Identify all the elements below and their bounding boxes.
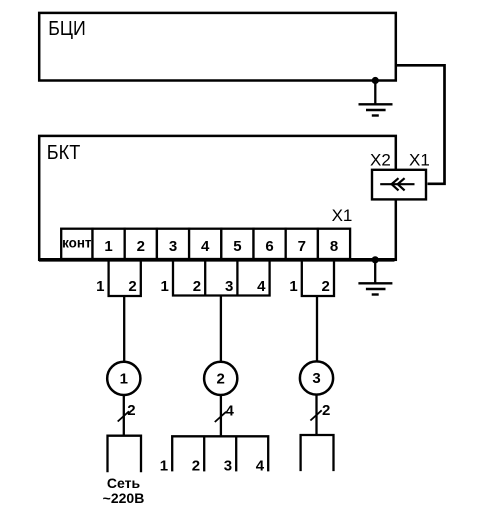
- bottom edge of БКТ (doubled line): [39, 258, 395, 262]
- terminal strip X1: contact 6: [254, 229, 286, 259]
- load connector (Сеть ~220В): [108, 436, 142, 473]
- svg-text:2: 2: [128, 278, 136, 295]
- connector symbol (arrows): [380, 178, 414, 190]
- svg-text:Сеть: Сеть: [107, 475, 141, 491]
- svg-text:2: 2: [127, 402, 135, 419]
- svg-text:X1: X1: [332, 206, 353, 225]
- svg-text:1: 1: [289, 278, 297, 295]
- wire bundle from contacts 1,2: [109, 260, 141, 296]
- wire label 2 (bundle C): [322, 278, 330, 295]
- load wire label 1: [160, 458, 168, 475]
- wire bundle B down to cable 2: [220, 296, 222, 362]
- wire cable 1 down to load: [123, 396, 125, 436]
- terminal strip X1: contact 1: [93, 229, 125, 259]
- cable circle 3: [300, 361, 333, 394]
- terminal strip X1: contact 5: [221, 229, 253, 259]
- terminal strip X1: contact 2: [125, 229, 157, 259]
- cable circle 1: [107, 362, 140, 395]
- svg-text:3: 3: [169, 238, 177, 255]
- ground symbol under БКТ: [358, 260, 392, 295]
- load connector (2-wire right): [301, 435, 334, 471]
- conductor-count label 4 (cable 2): [226, 403, 235, 420]
- cable circle 2: [204, 362, 237, 395]
- label Сеть ~220В: [103, 475, 145, 506]
- conductor-count label 2 (cable 1): [127, 402, 135, 419]
- svg-text:2: 2: [137, 238, 145, 255]
- junction dot on БКТ bottom: [372, 256, 379, 263]
- wire label 2 (bundle B): [193, 278, 201, 295]
- svg-text:5: 5: [233, 238, 241, 255]
- svg-text:7: 7: [298, 238, 306, 255]
- svg-text:4: 4: [256, 458, 265, 475]
- svg-text:БЦИ: БЦИ: [48, 18, 86, 40]
- connector X2/X1 box: [372, 170, 426, 200]
- conductor-count slash (cable 1): [118, 411, 129, 421]
- svg-text:БКТ: БКТ: [47, 141, 81, 164]
- terminal strip X1: contact 7: [286, 229, 318, 259]
- svg-text:2: 2: [193, 278, 201, 295]
- svg-text:3: 3: [224, 458, 232, 475]
- wire bundle from contacts 7,8: [302, 260, 334, 296]
- svg-text:1: 1: [96, 278, 104, 295]
- label X1 (connector socket side): [409, 150, 430, 169]
- svg-text:2: 2: [192, 458, 200, 475]
- svg-text:4: 4: [201, 238, 210, 255]
- wire bundle from contacts 3,4,5,6: [173, 260, 270, 296]
- svg-text:~220В: ~220В: [103, 490, 145, 506]
- svg-text:X2: X2: [370, 150, 391, 169]
- conductor-count label 2 (cable 3): [322, 402, 330, 419]
- terminal strip X1: конт cell: [61, 229, 92, 259]
- svg-text:8: 8: [330, 238, 338, 255]
- label X2 (connector plug side): [370, 150, 391, 169]
- svg-text:1: 1: [161, 278, 169, 295]
- wire label 4 (bundle B): [257, 278, 266, 295]
- load connector (4-wire): [172, 436, 268, 471]
- terminal strip X1: contact 8: [318, 229, 350, 259]
- wire cable 3 down to load: [315, 395, 317, 435]
- wire label 1 (bundle B): [161, 278, 169, 295]
- wire label 1 (bundle C): [289, 278, 297, 295]
- block БЦИ: [39, 13, 396, 81]
- svg-text:2: 2: [322, 278, 330, 295]
- wire cable 2 down to load: [220, 396, 222, 436]
- conductor-count slash (cable 3): [310, 410, 321, 420]
- wire label 2 (bundle A): [128, 278, 136, 295]
- svg-text:конт: конт: [62, 236, 92, 251]
- svg-text:1: 1: [104, 238, 112, 255]
- svg-text:3: 3: [312, 370, 320, 387]
- block БКТ: [39, 136, 396, 260]
- svg-text:6: 6: [265, 238, 273, 255]
- load wire label 4: [256, 458, 265, 475]
- svg-text:4: 4: [257, 278, 266, 295]
- label X1 (terminal strip): [332, 206, 353, 225]
- wire label 3 (bundle B): [225, 278, 233, 295]
- svg-text:2: 2: [217, 371, 225, 388]
- svg-text:4: 4: [226, 403, 235, 420]
- load wire label 2: [192, 458, 200, 475]
- wire label 1 (bundle A): [96, 278, 104, 295]
- wire bundle C down to cable 3: [316, 296, 318, 361]
- svg-text:X1: X1: [409, 150, 430, 169]
- load wire label 3: [224, 458, 232, 475]
- svg-text:2: 2: [322, 402, 330, 419]
- wire БЦИ right edge to X1 connector: [396, 65, 445, 184]
- junction dot on БЦИ bottom: [372, 77, 379, 84]
- terminal strip X1: contact 4: [189, 229, 221, 259]
- conductor-count slash (cable 2): [215, 412, 226, 422]
- svg-text:3: 3: [225, 278, 233, 295]
- svg-text:1: 1: [120, 371, 128, 388]
- svg-text:1: 1: [160, 458, 168, 475]
- ground symbol under БЦИ: [359, 81, 393, 116]
- wire bundle A down to cable 1: [123, 296, 125, 361]
- terminal strip X1: contact 3: [157, 229, 189, 259]
